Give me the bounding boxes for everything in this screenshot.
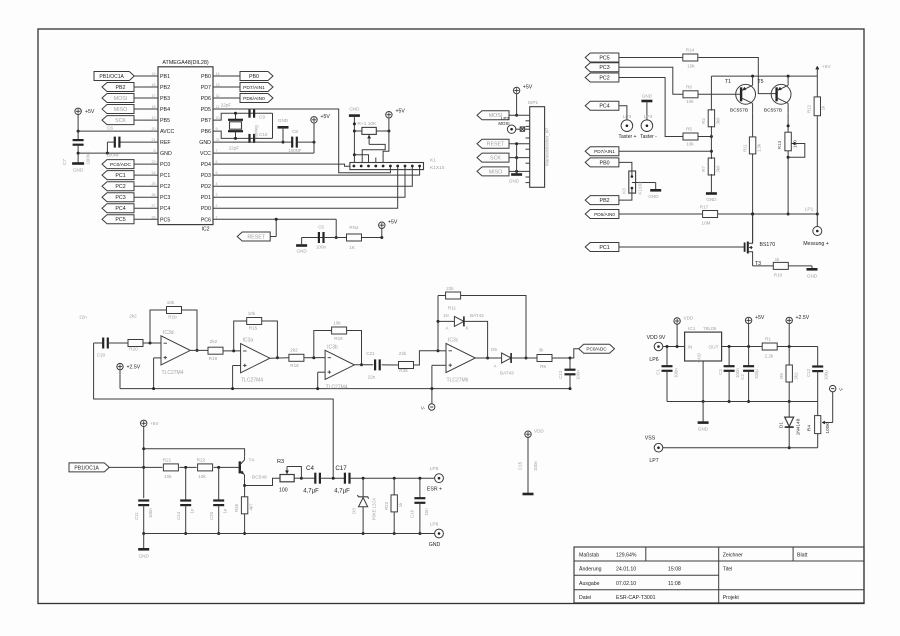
svg-text:GND: GND: [807, 274, 818, 279]
svg-text:BC548: BC548: [252, 475, 267, 481]
svg-text:K1X02: K1X02: [638, 181, 643, 195]
svg-text:R11: R11: [448, 306, 457, 311]
svg-text:3: 3: [216, 193, 218, 197]
svg-text:+5V: +5V: [85, 109, 95, 115]
svg-text:GND: GND: [642, 94, 653, 99]
svg-text:3k6: 3k6: [716, 117, 721, 125]
svg-text:GND: GND: [706, 197, 717, 202]
svg-text:GND: GND: [349, 107, 360, 112]
svg-text:+2.5V: +2.5V: [796, 315, 810, 321]
svg-text:GND: GND: [429, 542, 441, 548]
svg-text:9: 9: [216, 127, 218, 131]
svg-text:R38: R38: [399, 368, 408, 373]
svg-text:PD6: PD6: [201, 96, 211, 102]
svg-text:1k: 1k: [821, 105, 826, 110]
svg-text:P6KE 12CA: P6KE 12CA: [372, 498, 377, 521]
svg-text:LP3: LP3: [623, 114, 632, 120]
svg-text:10k: 10k: [198, 474, 206, 479]
svg-text:GND: GND: [278, 118, 289, 123]
svg-text:R19: R19: [209, 356, 218, 361]
svg-text:2: 2: [216, 204, 218, 208]
svg-text:D3: D3: [352, 508, 357, 514]
svg-text:MOSI: MOSI: [498, 121, 509, 126]
svg-text:IN: IN: [688, 345, 693, 351]
svg-text:AVCC: AVCC: [160, 129, 174, 135]
svg-text:PB5: PB5: [160, 118, 170, 124]
svg-text:C9: C9: [259, 115, 265, 120]
svg-text:R14: R14: [686, 48, 695, 53]
svg-text:11: 11: [216, 105, 220, 109]
svg-text:PD5: PD5: [201, 107, 211, 113]
svg-text:R4: R4: [807, 425, 813, 431]
svg-text:C15: C15: [518, 461, 523, 470]
svg-text:R7: R7: [701, 166, 706, 172]
svg-text:10k: 10k: [687, 64, 695, 69]
svg-text:TLC27M6: TLC27M6: [447, 378, 469, 384]
svg-text:V-: V-: [421, 406, 426, 412]
svg-text:10k: 10k: [686, 142, 694, 147]
svg-text:15: 15: [152, 72, 156, 76]
svg-text:LP5: LP5: [430, 466, 439, 472]
svg-text:8: 8: [154, 149, 156, 153]
svg-text:PC1: PC1: [160, 173, 170, 179]
svg-text:C2: C2: [740, 374, 745, 380]
svg-text:PC5: PC5: [115, 217, 125, 223]
svg-text:PB2: PB2: [600, 198, 610, 204]
svg-text:K3: K3: [622, 188, 627, 194]
svg-text:PC2: PC2: [160, 184, 170, 190]
svg-text:PC4: PC4: [115, 206, 125, 212]
svg-text:100n: 100n: [533, 461, 538, 471]
svg-text:R6: R6: [686, 85, 692, 90]
svg-text:C16: C16: [410, 509, 415, 518]
svg-text:PB0: PB0: [249, 74, 259, 80]
svg-text:22n: 22n: [79, 315, 87, 320]
svg-text:LP6: LP6: [649, 357, 658, 363]
svg-text:TLC27M4: TLC27M4: [162, 370, 184, 376]
svg-text:C3: C3: [718, 369, 723, 375]
svg-text:R5: R5: [686, 127, 692, 132]
svg-text:A: A: [446, 326, 449, 331]
svg-text:PD4: PD4: [201, 162, 211, 168]
svg-text:R36: R36: [234, 503, 239, 512]
svg-text:LP4: LP4: [644, 114, 653, 120]
svg-text:OUT: OUT: [708, 345, 718, 351]
svg-text:C21: C21: [366, 351, 375, 356]
svg-text:C20: C20: [97, 353, 106, 358]
svg-text:Messung +: Messung +: [803, 241, 829, 247]
svg-text:10n: 10n: [424, 508, 429, 516]
svg-text:PD6/AIN0: PD6/AIN0: [243, 96, 265, 102]
svg-text:GND: GND: [73, 168, 84, 173]
svg-text:PC0: PC0: [160, 162, 170, 168]
svg-text:+2.5V: +2.5V: [127, 365, 141, 371]
svg-text:ISP1: ISP1: [528, 100, 539, 106]
svg-text:C10: C10: [259, 132, 268, 137]
svg-text:7: 7: [216, 149, 218, 153]
svg-text:Ausgabe: Ausgabe: [579, 581, 600, 587]
svg-text:78L05: 78L05: [703, 326, 717, 332]
svg-text:+5V: +5V: [396, 109, 406, 115]
svg-text:GND: GND: [697, 353, 702, 362]
svg-text:PB0: PB0: [201, 74, 211, 80]
svg-text:Taster -: Taster -: [640, 134, 657, 140]
svg-text:K: K: [466, 326, 469, 331]
svg-text:PD7/AIN1: PD7/AIN1: [243, 85, 265, 91]
svg-text:+5V: +5V: [150, 421, 159, 427]
svg-text:1n: 1n: [190, 508, 195, 513]
svg-text:14: 14: [216, 72, 220, 76]
svg-text:100n: 100n: [576, 370, 581, 380]
svg-text:PC3: PC3: [160, 195, 170, 201]
svg-text:PC0/ADC: PC0/ADC: [586, 347, 607, 352]
svg-text:22n: 22n: [368, 375, 376, 380]
svg-text:PD7: PD7: [201, 85, 211, 91]
svg-text:PC4: PC4: [160, 206, 170, 212]
svg-text:PC5: PC5: [160, 217, 170, 223]
svg-text:24.01.10: 24.01.10: [616, 567, 636, 573]
svg-text:BC557B: BC557B: [764, 108, 782, 114]
svg-text:T4: T4: [249, 458, 255, 464]
svg-text:PB1/OC1A: PB1/OC1A: [99, 74, 124, 80]
svg-text:2.2k: 2.2k: [765, 354, 774, 359]
svg-text:VCC: VCC: [200, 151, 211, 157]
svg-text:K1X10: K1X10: [430, 165, 445, 171]
svg-text:SCK: SCK: [115, 118, 126, 124]
svg-text:MISO: MISO: [489, 169, 503, 175]
svg-text:PC3: PC3: [599, 65, 609, 71]
svg-text:100: 100: [279, 488, 288, 494]
svg-text:LP7: LP7: [649, 458, 658, 464]
svg-text:R22: R22: [197, 458, 206, 463]
svg-text:TLC27M4: TLC27M4: [326, 384, 348, 390]
svg-text:Änderung: Änderung: [579, 566, 602, 573]
svg-text:28: 28: [152, 215, 156, 219]
svg-text:PB4: PB4: [160, 107, 170, 113]
svg-text:RESET: RESET: [247, 234, 265, 240]
svg-text:BS170: BS170: [760, 242, 776, 248]
svg-text:5: 5: [216, 171, 218, 175]
svg-text:C12: C12: [806, 368, 811, 377]
svg-text:+5V: +5V: [321, 114, 331, 120]
svg-text:100µ: 100µ: [824, 370, 829, 380]
svg-text:R21: R21: [163, 458, 172, 463]
svg-text:PC0/ADC: PC0/ADC: [110, 162, 132, 168]
svg-text:R3: R3: [277, 459, 284, 465]
svg-text:100n: 100n: [148, 508, 153, 518]
svg-text:PD2: PD2: [201, 184, 211, 190]
svg-text:17: 17: [152, 94, 156, 98]
svg-text:PB7: PB7: [201, 118, 211, 124]
svg-text:C14: C14: [176, 511, 181, 520]
svg-text:+5V: +5V: [822, 64, 831, 70]
svg-text:BAT43: BAT43: [470, 313, 484, 318]
svg-text:1.3k: 1.3k: [757, 143, 762, 152]
svg-text:R9: R9: [540, 364, 546, 369]
svg-text:R+1 10K: R+1 10K: [358, 121, 378, 127]
svg-text:2k2: 2k2: [290, 348, 298, 353]
svg-text:Titel: Titel: [723, 567, 733, 573]
svg-text:C11: C11: [134, 512, 139, 520]
svg-text:20: 20: [152, 127, 156, 131]
svg-text:R2: R2: [701, 118, 706, 124]
svg-text:R12: R12: [807, 104, 812, 113]
svg-text:RESET: RESET: [487, 142, 505, 148]
svg-text:LP1: LP1: [805, 207, 814, 213]
svg-text:1K: 1K: [349, 245, 356, 250]
svg-text:PD0: PD0: [201, 206, 211, 212]
svg-text:4k7: 4k7: [249, 503, 254, 511]
svg-text:T5: T5: [758, 79, 764, 85]
svg-text:PD7/AIN1: PD7/AIN1: [594, 149, 615, 154]
svg-text:R11: R11: [743, 144, 748, 152]
svg-text:PC2: PC2: [599, 75, 609, 81]
svg-text:R23: R23: [384, 501, 389, 510]
svg-text:22pF: 22pF: [221, 103, 232, 108]
svg-text:MOSI: MOSI: [114, 96, 128, 102]
svg-text:10Meg: 10Meg: [254, 125, 259, 139]
svg-text:+5V: +5V: [388, 220, 398, 226]
svg-text:1: 1: [216, 215, 218, 219]
svg-text:PB6: PB6: [201, 129, 211, 135]
svg-text:R18: R18: [290, 363, 299, 368]
svg-text:3k6: 3k6: [716, 165, 721, 173]
svg-text:REF: REF: [160, 140, 171, 146]
svg-text:11:08: 11:08: [668, 581, 681, 587]
svg-text:PC1: PC1: [115, 173, 125, 179]
svg-text:IC3c: IC3c: [448, 338, 459, 344]
svg-text:ATMEGA48(DIL28): ATMEGA48(DIL28): [162, 60, 209, 66]
svg-text:IC3b: IC3b: [327, 344, 338, 350]
svg-text:R1: R1: [765, 337, 771, 342]
svg-text:Blatt: Blatt: [797, 553, 808, 559]
svg-text:100n: 100n: [316, 245, 327, 250]
svg-text:C4: C4: [306, 465, 314, 472]
svg-text:C5: C5: [318, 225, 324, 230]
svg-text:Maßstab: Maßstab: [579, 553, 599, 559]
svg-text:VSS: VSS: [645, 436, 656, 442]
svg-text:GND: GND: [199, 140, 211, 146]
svg-text:R8: R8: [779, 373, 784, 379]
svg-text:12: 12: [216, 94, 220, 98]
svg-text:PB1/OC1A: PB1/OC1A: [74, 465, 99, 471]
svg-text:4: 4: [216, 182, 218, 186]
svg-text:TLC27M4: TLC27M4: [241, 378, 263, 384]
svg-text:IC2: IC2: [201, 227, 209, 233]
svg-text:1N4148: 1N4148: [796, 418, 802, 435]
svg-text:GND: GND: [160, 151, 172, 157]
svg-text:RN2: RN2: [349, 225, 359, 230]
svg-text:R1b: R1b: [168, 315, 177, 320]
svg-text:C8: C8: [292, 129, 298, 134]
svg-text:10k: 10k: [164, 474, 172, 479]
svg-text:13: 13: [216, 83, 220, 87]
svg-text:BC557B: BC557B: [730, 108, 748, 114]
svg-text:PC3: PC3: [115, 195, 125, 201]
svg-text:3k: 3k: [539, 348, 545, 353]
svg-text:GND: GND: [648, 194, 659, 199]
svg-text:26: 26: [152, 193, 156, 197]
svg-text:C25: C25: [209, 511, 214, 520]
svg-text:V-: V-: [839, 387, 844, 393]
svg-text:1N: 1N: [443, 313, 449, 318]
svg-text:27: 27: [152, 204, 156, 208]
svg-text:GND: GND: [698, 427, 709, 432]
svg-text:23: 23: [152, 160, 156, 164]
svg-text:22k: 22k: [399, 351, 407, 356]
svg-text:R17: R17: [700, 205, 709, 210]
svg-text:100n: 100n: [674, 368, 679, 378]
svg-text:PC2: PC2: [115, 184, 125, 190]
svg-text:Taster +: Taster +: [619, 134, 637, 140]
svg-text:21: 21: [152, 138, 156, 142]
svg-text:R20: R20: [129, 347, 138, 352]
svg-text:PB3: PB3: [160, 96, 170, 102]
svg-text:19: 19: [152, 116, 156, 120]
svg-text:100µ: 100µ: [754, 369, 759, 379]
svg-text:16: 16: [152, 83, 156, 87]
svg-text:4,7µF: 4,7µF: [334, 489, 350, 495]
svg-text:K1: K1: [430, 158, 436, 164]
svg-text:T1: T1: [725, 79, 731, 85]
svg-text:PC4: PC4: [599, 104, 609, 110]
svg-text:10: 10: [216, 116, 220, 120]
svg-text:IC3d: IC3d: [163, 330, 174, 336]
svg-text:100NF: 100NF: [288, 148, 301, 153]
svg-text:R13: R13: [777, 140, 782, 149]
svg-text:IC3a: IC3a: [243, 338, 254, 344]
svg-text:ESR-CAP-T3001: ESR-CAP-T3001: [616, 595, 656, 601]
svg-text:Zeichner: Zeichner: [723, 553, 743, 559]
svg-text:R16: R16: [334, 336, 343, 341]
svg-text:100K: 100K: [825, 422, 831, 434]
svg-text:PC5: PC5: [599, 55, 609, 61]
svg-text:D5: D5: [491, 347, 497, 352]
svg-text:129,64%: 129,64%: [616, 553, 637, 559]
svg-text:22k: 22k: [446, 286, 454, 291]
svg-text:2k2: 2k2: [794, 372, 799, 380]
svg-text:VDD: VDD: [684, 316, 694, 321]
svg-text:07.02.10: 07.02.10: [616, 581, 636, 587]
svg-text:VDD 9V: VDD 9V: [647, 335, 666, 341]
svg-text:MISO: MISO: [114, 107, 128, 113]
svg-text:1n: 1n: [223, 508, 228, 513]
svg-text:GND: GND: [509, 179, 520, 184]
svg-text:15:08: 15:08: [668, 567, 681, 573]
svg-text:SCK: SCK: [490, 156, 501, 162]
svg-text:GND: GND: [139, 554, 150, 559]
svg-text:2k2: 2k2: [129, 314, 137, 319]
svg-text:1k: 1k: [398, 502, 403, 507]
svg-text:PD1: PD1: [201, 195, 211, 201]
svg-text:ESR +: ESR +: [427, 487, 442, 493]
svg-text:C1: C1: [656, 369, 661, 375]
svg-text:C6: C6: [107, 126, 113, 131]
svg-text:R15: R15: [249, 326, 258, 331]
svg-text:C17: C17: [335, 465, 347, 472]
svg-text:10M: 10M: [702, 221, 711, 226]
svg-text:+5V: +5V: [755, 315, 765, 321]
svg-text:D1: D1: [779, 422, 785, 428]
svg-text:PB0: PB0: [600, 160, 610, 166]
svg-text:10k: 10k: [248, 311, 256, 316]
svg-text:PC6: PC6: [201, 217, 211, 223]
svg-text:Projekt: Projekt: [723, 595, 740, 601]
svg-text:BAT43: BAT43: [500, 371, 514, 376]
svg-text:+5V: +5V: [523, 85, 533, 91]
svg-text:PD3: PD3: [201, 173, 211, 179]
svg-text:PD6/AIN0: PD6/AIN0: [594, 212, 615, 217]
svg-text:18: 18: [152, 105, 156, 109]
svg-text:PB1: PB1: [160, 74, 170, 80]
svg-text:VDD: VDD: [534, 429, 544, 434]
svg-text:1k: 1k: [775, 257, 781, 262]
svg-text:PB2: PB2: [160, 85, 170, 91]
svg-text:10k: 10k: [167, 300, 175, 305]
svg-text:R10: R10: [774, 273, 783, 278]
svg-text:22pF: 22pF: [229, 146, 240, 151]
svg-text:4,7µF: 4,7µF: [303, 489, 319, 495]
svg-text:6: 6: [216, 160, 218, 164]
svg-text:100NF: 100NF: [106, 153, 119, 158]
svg-text:C7: C7: [62, 159, 67, 165]
svg-text:25: 25: [152, 182, 156, 186]
svg-text:24: 24: [152, 171, 156, 175]
svg-text:GND: GND: [296, 249, 307, 254]
svg-text:10k: 10k: [686, 99, 694, 104]
svg-text:IC1: IC1: [688, 326, 696, 332]
svg-text:Datei: Datei: [579, 595, 591, 601]
svg-text:Wannenstecker_6P: Wannenstecker_6P: [544, 128, 549, 166]
svg-text:22: 22: [216, 138, 220, 142]
svg-text:C13: C13: [558, 370, 563, 379]
svg-text:10k: 10k: [333, 321, 341, 326]
svg-text:A: A: [494, 364, 497, 369]
svg-text:2k2: 2k2: [210, 339, 218, 344]
svg-text:PB2: PB2: [115, 85, 125, 91]
svg-text:PC1: PC1: [599, 245, 609, 251]
svg-text:100NF: 100NF: [86, 151, 91, 164]
svg-text:LP8: LP8: [430, 522, 439, 528]
